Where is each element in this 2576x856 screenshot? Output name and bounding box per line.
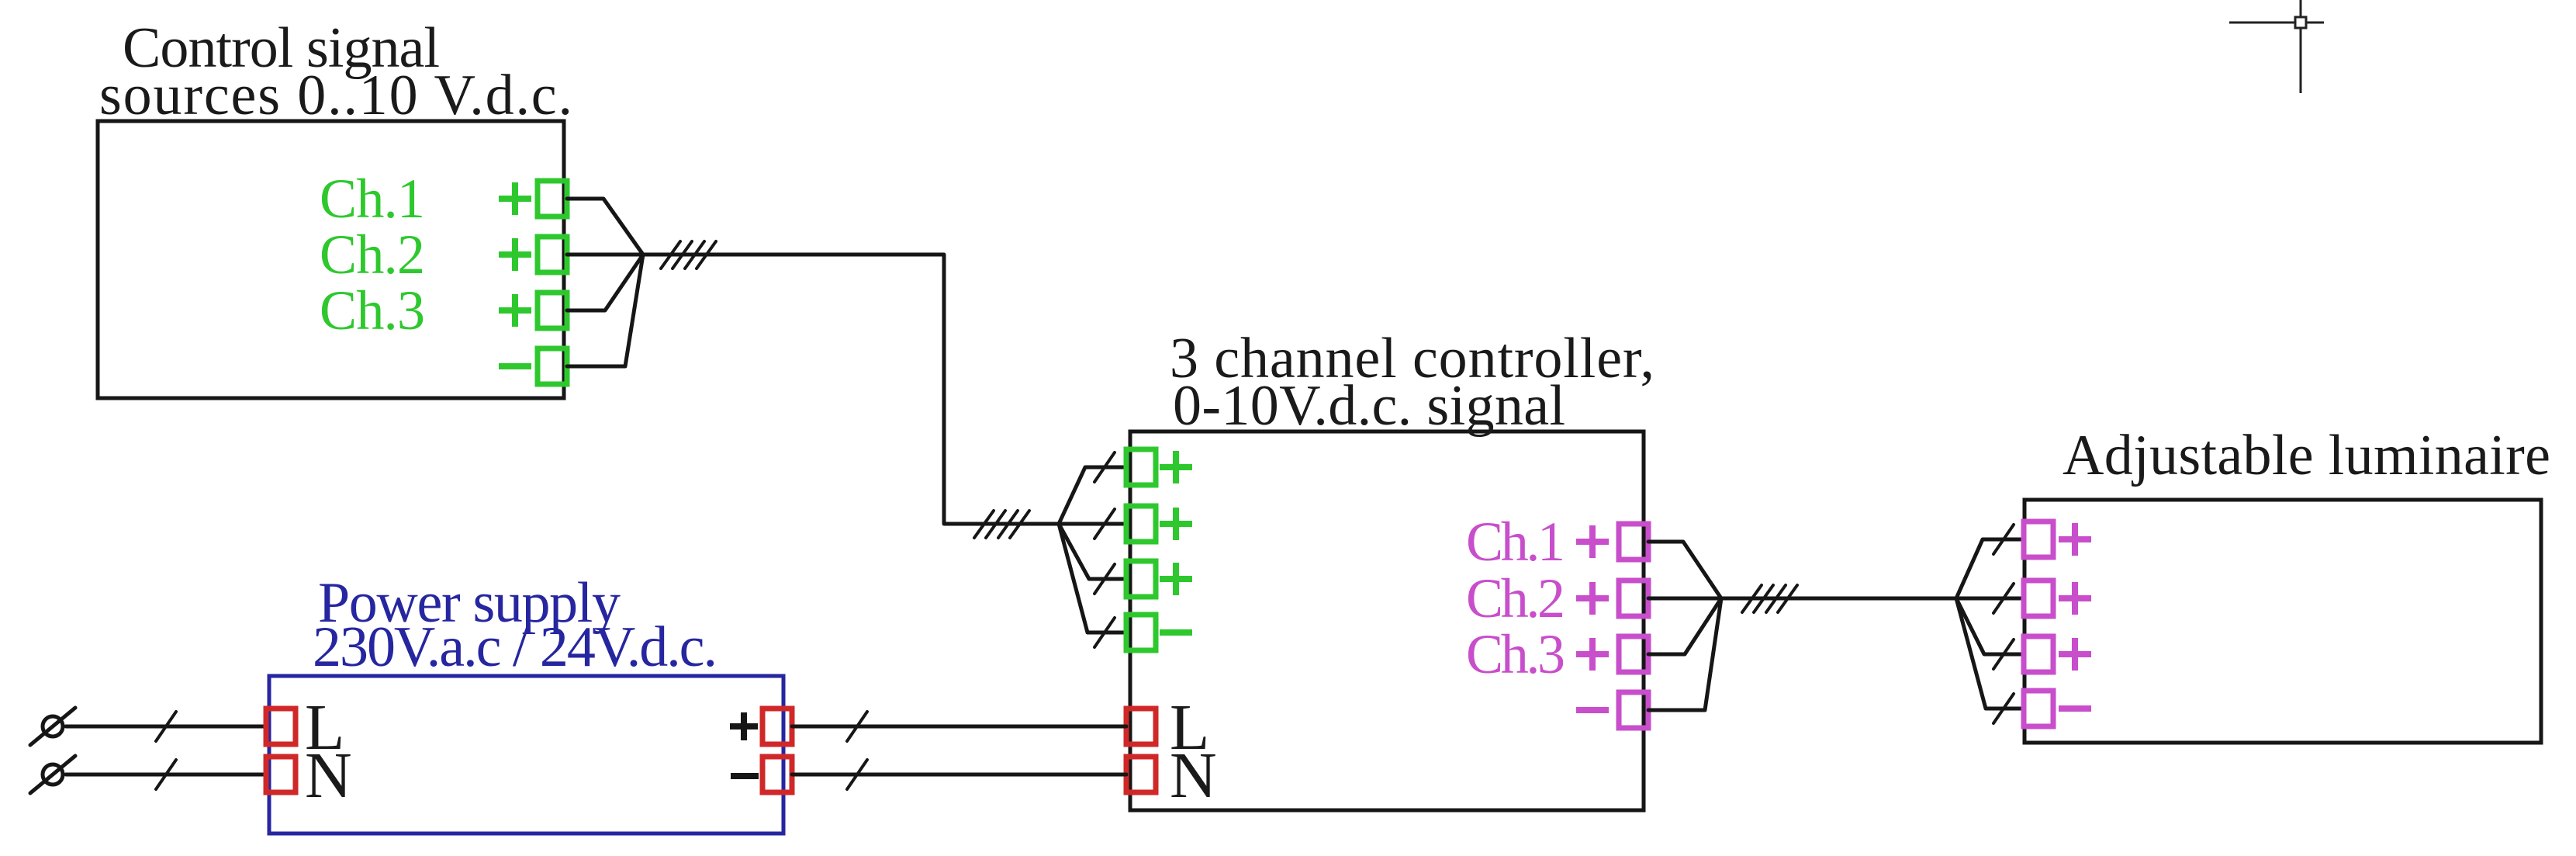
crosshair cursor [2229, 0, 2324, 93]
label: Control signal sources 0..10 V.d.c. [99, 16, 572, 127]
wire -24V to controller N [792, 773, 1126, 777]
conductor slash on luminaire - wire [1993, 694, 2014, 723]
svg-text:N: N [1170, 740, 1217, 812]
polarity + out2 (controller) [1576, 582, 1609, 615]
svg-text:Ch.2: Ch.2 [320, 224, 425, 286]
box: power supply 230V/24V (blue) [269, 676, 783, 833]
wire controller out ch1 to node C [1648, 542, 1721, 598]
wire controller out ch3 to node C [1648, 598, 1721, 654]
conductor slash on luminaire +2 wire [1993, 584, 2014, 613]
terminal +2 (luminaire) [2024, 580, 2053, 616]
terminal +24V (power supply) [762, 709, 792, 744]
polarity + input2 (controller) [1160, 508, 1192, 540]
terminal +3 (luminaire) [2024, 636, 2053, 672]
polarity + Ch.2 (sources) [499, 238, 531, 271]
terminal out - (controller) [1619, 692, 1648, 728]
label Ch.2 (sources) [320, 224, 425, 286]
conductor slash on luminaire +1 wire [1993, 525, 2014, 554]
terminal N (power supply) [266, 757, 296, 792]
svg-text:Ch.3: Ch.3 [320, 279, 425, 341]
polarity + out1 (controller) [1576, 525, 1609, 558]
svg-text:230V.a.c / 24V.d.c.: 230V.a.c / 24V.d.c. [313, 615, 717, 679]
terminal Ch.1+ (sources) [538, 181, 567, 217]
polarity + input1 (controller) [1160, 451, 1192, 483]
wire bundle: sources to controller (node A to node B) [643, 255, 1059, 524]
wire node B to controller input + (ch2) [1059, 522, 1126, 526]
svg-text:Ch.3: Ch.3 [1466, 623, 1565, 685]
terminal N (controller) [1126, 757, 1156, 792]
wire Ch.1+ sources to bundle node A [567, 199, 643, 255]
polarity - input (controller) [1160, 629, 1192, 636]
conductor slash on ch3 input wire [1094, 564, 1115, 594]
pin label L (power supply) [305, 691, 344, 764]
conductor slash on mains N wire [156, 760, 176, 789]
wire node D to luminaire - [1956, 598, 2024, 709]
bundle marker //// (4 conductors) after node A [661, 241, 716, 269]
bundle marker //// (4 conductors) after node C [1742, 585, 1797, 612]
polarity + out3 (controller) [1576, 638, 1609, 671]
polarity - lum [2059, 705, 2091, 712]
terminal - (luminaire) [2024, 691, 2053, 726]
wire mains N to power supply [66, 773, 266, 777]
terminal input - (controller) [1126, 615, 1156, 650]
wire bundle: controller to luminaire (node C to node D) [1721, 597, 1956, 601]
wire Ch.3+ sources to bundle node A [567, 255, 643, 310]
wire Ch.2+ sources to bundle node A [567, 253, 643, 257]
terminal -24V (power supply) [762, 757, 792, 792]
polarity + 24V out (power supply) [730, 712, 758, 740]
polarity - 24V out (power supply) [731, 773, 759, 779]
terminal input +3 (controller) [1126, 561, 1156, 597]
terminal out Ch.2+ (controller) [1619, 580, 1648, 616]
conductor slash on - input wire [1094, 618, 1115, 647]
conductor slash on ch1 input wire [1094, 452, 1115, 482]
label: Power supply 230V.a.c / 24V.d.c. [313, 571, 717, 679]
polarity + Ch.3 (sources) [499, 294, 531, 327]
pin label N (power supply) [305, 740, 352, 812]
conductor slash on -24V wire [847, 760, 867, 789]
conductor slash on mains L wire [156, 712, 176, 741]
box: 3 channel controller [1130, 431, 1644, 810]
polarity + lum1 [2059, 523, 2091, 556]
conductor slash on ch2 input wire [1094, 509, 1115, 539]
terminal input +2 (controller) [1126, 506, 1156, 542]
svg-text:Ch.2: Ch.2 [1466, 567, 1565, 629]
mains input terminal circle N [30, 756, 75, 793]
mains input terminal circle L [30, 708, 75, 745]
conductor slash on luminaire +3 wire [1993, 639, 2014, 669]
wire node B to controller input - [1059, 524, 1126, 632]
polarity + input3 (controller) [1160, 563, 1192, 595]
label Ch.2 (controller out) [1466, 567, 1565, 629]
label Ch.1 (controller out) [1466, 511, 1565, 573]
wire node D to luminaire +1 [1956, 539, 2024, 598]
terminal out Ch.3+ (controller) [1619, 636, 1648, 672]
svg-text:Ch.1: Ch.1 [320, 168, 425, 230]
label Ch.3 (controller out) [1466, 623, 1565, 685]
wire node B to controller input + (ch1) [1059, 467, 1126, 524]
terminal - (sources) [538, 348, 567, 384]
terminal L (power supply) [266, 709, 296, 744]
terminal Ch.2+ (sources) [538, 237, 567, 272]
polarity + Ch.1 (sources) [499, 182, 531, 215]
wire node D to luminaire +3 [1956, 598, 2024, 654]
pin label L (controller) [1170, 691, 1209, 764]
terminal L (controller) [1126, 709, 1156, 744]
svg-text:0-10V.d.c. signal: 0-10V.d.c. signal [1173, 374, 1565, 438]
svg-text:Adjustable luminaire: Adjustable luminaire [2063, 424, 2550, 487]
label: 3 channel controller, 0-10V.d.c. signal [1170, 327, 1655, 438]
bundle marker //// (4 conductors) before node B [974, 511, 1029, 538]
svg-text:sources 0..10 V.d.c.: sources 0..10 V.d.c. [99, 64, 572, 127]
wire +24V to controller L [792, 725, 1126, 729]
box: control signal sources [98, 121, 564, 398]
terminal input +1 (controller) [1126, 449, 1156, 485]
wire - sources to bundle node A [567, 255, 643, 366]
label Ch.1 (sources) [320, 168, 425, 230]
label Ch.3 (sources) [320, 279, 425, 341]
terminal +1 (luminaire) [2024, 522, 2053, 557]
svg-text:Ch.1: Ch.1 [1466, 511, 1565, 573]
pin label N (controller) [1170, 740, 1217, 812]
wire controller out ch2 to node C [1648, 597, 1721, 601]
wire node D to luminaire +2 [1956, 597, 2024, 601]
terminal Ch.3+ (sources) [538, 293, 567, 328]
wire node B to controller input + (ch3) [1059, 524, 1126, 579]
polarity - out (controller) [1576, 707, 1609, 713]
label: Adjustable luminaire [2063, 424, 2550, 487]
polarity + lum2 [2059, 582, 2091, 615]
box: adjustable luminaire [2024, 500, 2541, 743]
wire mains L to power supply [66, 725, 266, 729]
terminal out Ch.1+ (controller) [1619, 524, 1648, 560]
wire controller out - to node C [1648, 598, 1721, 710]
conductor slash on +24V wire [847, 712, 867, 741]
svg-text:N: N [305, 740, 352, 812]
polarity + lum3 [2059, 638, 2091, 671]
polarity - common (sources) [499, 363, 531, 369]
